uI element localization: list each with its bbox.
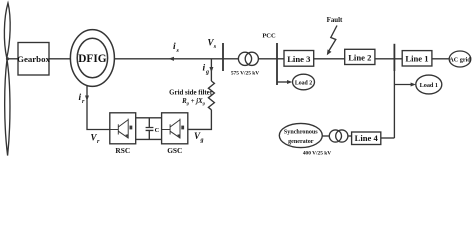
svg-text:Rg + jXg: Rg + jXg [181,98,206,106]
svg-text:575 V/25 kV: 575 V/25 kV [231,71,259,77]
svg-text:RSC: RSC [115,146,130,155]
generator DFIG inner [77,38,107,78]
transformer T2 400V/25kV [329,130,341,142]
fault lightning bolt [329,26,337,52]
svg-text:GSC: GSC [167,146,182,155]
svg-text:Line 2: Line 2 [348,53,371,63]
wire Line 1 to AC grid [432,58,449,60]
gearbox box [18,43,49,76]
grid side filter zigzag [208,81,214,110]
arrowhead i_g down [209,67,213,73]
svg-text:Gearbox: Gearbox [17,54,50,64]
svg-text:AC grid: AC grid [449,56,471,63]
svg-text:g: g [205,70,209,76]
Line 1 box [402,51,432,66]
arrowhead Load 1 [411,83,416,87]
transformer T1 575V/25kV [238,52,251,65]
svg-text:C: C [155,127,160,134]
svg-text:Line 1: Line 1 [405,54,428,64]
svg-text:Synchronous: Synchronous [284,130,318,136]
stator node Vs branch down [210,59,212,81]
Line 2 box [345,49,375,64]
wire right bus down [393,71,395,138]
hub dot [6,57,9,60]
wire sync gen to T2 [322,135,329,137]
rotor wire DFIG down to RSC [87,86,110,130]
IGBT symbol GSC [162,119,185,139]
Load 2 ellipse [293,74,315,90]
wire PCC to Line 3 [277,58,284,60]
IGBT symbol RSC [110,119,133,139]
svg-text:g: g [200,138,204,144]
wire filter to GSC corner [188,110,212,130]
Line 3 box [284,51,314,67]
svg-text:Load 2: Load 2 [295,80,312,86]
DC link rail top [136,117,162,119]
wind turbine blade upper [4,3,10,58]
arrowhead Load 2 [287,80,292,84]
Load 1 ellipse [416,75,442,94]
Line 4 box [352,132,381,145]
svg-text:generator: generator [288,139,314,145]
GSC converter box [162,113,188,144]
svg-text:400 V/25 kV: 400 V/25 kV [303,151,331,157]
wire PCC down branch to Load 2 [277,81,289,83]
arrowhead fault [327,49,332,55]
wire down to Line 4 [381,137,395,139]
wire Line 3 to Line 2 [314,58,345,60]
turbine shaft wire [8,58,18,60]
wind turbine blade lower [5,60,10,156]
svg-text:Fault: Fault [327,17,343,24]
synchronous generator ellipse [279,123,322,147]
arrowhead i_s left [168,57,174,61]
generator DFIG outer [70,30,114,87]
arrowhead i_r down [85,96,89,102]
wire Line 2 to Line 1 [375,58,402,60]
svg-text:PCC: PCC [262,33,276,40]
DC link rail bottom [136,138,162,140]
svg-text:Grid side filter: Grid side filter [169,90,213,97]
capacitor C [146,118,154,140]
wire branch to Load 1 [394,84,412,86]
wire bus to transformer T1 [223,58,238,60]
svg-text:Load 1: Load 1 [420,82,438,89]
svg-text:Line 3: Line 3 [287,54,310,64]
bus bar right [393,44,395,71]
svg-text:Line 4: Line 4 [355,133,379,143]
RSC converter box [110,113,136,144]
stator wire DFIG to bus [114,58,223,60]
bus bar B575 [222,43,224,71]
wire T2 to Line 4 [348,135,352,137]
AC grid ellipse [449,51,471,67]
wire gearbox to DFIG [49,58,70,60]
svg-text:DFIG: DFIG [78,53,106,65]
PCC bus bar [276,43,278,85]
wire T1 to PCC [258,58,277,60]
